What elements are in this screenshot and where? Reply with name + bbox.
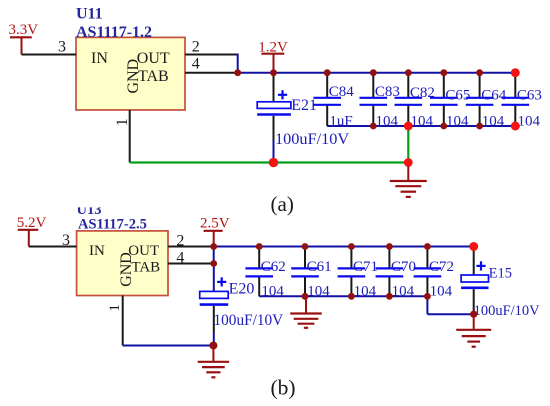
svg-text:100uF/10V: 100uF/10V	[275, 129, 349, 148]
svg-text:2: 2	[192, 39, 200, 56]
svg-text:C71: C71	[353, 259, 378, 275]
svg-text:C72: C72	[429, 259, 454, 275]
svg-text:E21: E21	[291, 97, 317, 114]
svg-text:U11: U11	[76, 6, 103, 23]
svg-text:1: 1	[107, 304, 123, 312]
svg-text:C65: C65	[445, 87, 470, 103]
svg-text:E15: E15	[489, 265, 512, 281]
svg-text:104: 104	[446, 113, 469, 129]
svg-text:AS1117-1.2: AS1117-1.2	[76, 24, 152, 41]
svg-text:IN: IN	[89, 243, 105, 259]
svg-text:104: 104	[411, 113, 434, 129]
svg-text:C70: C70	[391, 259, 416, 275]
svg-text:C61: C61	[307, 259, 332, 275]
svg-text:104: 104	[307, 284, 330, 300]
svg-text:(a): (a)	[271, 192, 294, 216]
svg-text:TAB: TAB	[131, 260, 160, 276]
svg-text:5.2V: 5.2V	[17, 215, 47, 231]
svg-text:4: 4	[192, 56, 200, 73]
svg-text:100uF/10V: 100uF/10V	[214, 312, 284, 329]
svg-text:(b): (b)	[271, 376, 296, 400]
svg-text:104: 104	[261, 284, 284, 300]
svg-text:C64: C64	[481, 87, 507, 103]
svg-text:2.5V: 2.5V	[200, 216, 230, 232]
svg-text:3: 3	[58, 38, 66, 55]
svg-text:IN: IN	[91, 50, 108, 67]
svg-text:104: 104	[376, 113, 399, 129]
svg-text:GND: GND	[125, 59, 142, 94]
svg-text:100uF/10V: 100uF/10V	[474, 303, 541, 319]
svg-text:E20: E20	[229, 281, 255, 298]
svg-text:104: 104	[430, 284, 453, 300]
svg-text:C62: C62	[261, 259, 286, 275]
svg-text:3.3V: 3.3V	[9, 22, 39, 38]
svg-text:104: 104	[482, 113, 505, 129]
svg-text:AS1117-2.5: AS1117-2.5	[78, 216, 147, 232]
svg-text:1uF: 1uF	[329, 113, 352, 129]
svg-text:104: 104	[392, 284, 415, 300]
svg-text:C63: C63	[517, 87, 542, 103]
svg-text:1.2V: 1.2V	[258, 40, 288, 56]
svg-text:1: 1	[114, 118, 131, 126]
svg-text:104: 104	[354, 284, 377, 300]
svg-text:104: 104	[518, 113, 541, 129]
svg-text:C84: C84	[329, 84, 355, 100]
svg-text:TAB: TAB	[138, 68, 169, 85]
svg-text:GND: GND	[118, 252, 135, 287]
